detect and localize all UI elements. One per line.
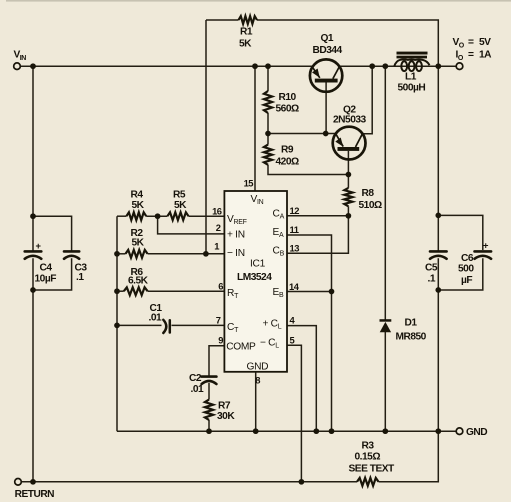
wire C5 bottom to ground bus [437, 258, 439, 431]
junction output ground node [435, 428, 441, 434]
resistor R5 body [167, 212, 188, 220]
wire C3 branch top [33, 216, 72, 251]
svg-text:C6: C6 [461, 253, 474, 264]
junction R8 CA CB node [346, 213, 352, 219]
junction C6 top node [435, 213, 441, 219]
svg-text:VO=5V: VO=5V [453, 37, 492, 49]
capacitor C6 500uF [475, 251, 492, 258]
inductor L1 core [397, 52, 428, 55]
inductor L1 500uH coil [394, 59, 429, 71]
svg-text:IC1: IC1 [250, 259, 266, 270]
wire D1 cathode from switch node [384, 66, 386, 319]
junction Q1 base Q2 emitter node [323, 131, 329, 137]
svg-text:R3: R3 [362, 441, 375, 452]
junction R10 top tap [265, 63, 271, 69]
svg-text:L1: L1 [405, 72, 417, 83]
resistor R9 body [264, 145, 272, 165]
svg-text:2: 2 [216, 222, 221, 233]
wire R3 to ground node [379, 431, 439, 482]
svg-text:R10: R10 [279, 92, 297, 103]
junction +CL ground [313, 428, 319, 434]
svg-text:RETURN: RETURN [15, 489, 55, 500]
wire pin 7 CT left of C1 [117, 324, 162, 326]
transistor Q1 BD344 [310, 59, 342, 91]
svg-text:5K: 5K [174, 200, 187, 211]
svg-text:6.5K: 6.5K [128, 276, 149, 287]
wire pin 2 +IN [158, 216, 225, 234]
svg-text:420Ω: 420Ω [276, 156, 299, 167]
svg-text:GND: GND [247, 361, 269, 372]
wire left ground vertical [116, 216, 118, 431]
capacitor C2 .01 [202, 377, 217, 384]
svg-text:.1: .1 [76, 272, 84, 283]
junction -CL return node [299, 479, 305, 485]
svg-text:6: 6 [218, 280, 223, 291]
svg-text:5K: 5K [132, 237, 145, 248]
terminal VO [456, 63, 463, 70]
wire C6 branch bottom [438, 258, 483, 290]
svg-text:14: 14 [289, 281, 300, 292]
junction output node [435, 63, 441, 69]
junction pin8 ground [253, 428, 259, 434]
wire C3 branch bottom [33, 258, 72, 290]
svg-text:2N5033: 2N5033 [333, 115, 367, 126]
wire pin 1 -IN [148, 253, 225, 255]
junction pin15 tap [252, 63, 258, 69]
wire top feedback right segment [257, 20, 438, 66]
wire pin 5 -CL to return bus [287, 345, 301, 482]
svg-text:C4: C4 [40, 263, 53, 274]
wire ground bus [117, 430, 456, 432]
IC IC1 LM3524 box [224, 191, 287, 372]
wire R2 left [117, 253, 126, 255]
wire R10 top [267, 66, 269, 91]
svg-text:SEE TEXT: SEE TEXT [349, 464, 396, 475]
resistor R6 body [124, 287, 148, 295]
svg-text:COMP: COMP [226, 341, 256, 352]
junction R2 ground side [114, 251, 120, 257]
wire pin 14 EB [287, 291, 332, 293]
wire VIN bus right / switch node to L1 [339, 65, 456, 67]
transistor Q2 2N5033 [333, 127, 366, 160]
svg-text:500µH: 500µH [398, 83, 426, 94]
wire output vertical to C5 [437, 66, 439, 251]
junction D1 tap [382, 63, 388, 69]
svg-text:.01: .01 [191, 384, 204, 395]
resistor R4 body [126, 212, 146, 220]
svg-text:C2: C2 [189, 373, 202, 384]
wire R6 left [117, 290, 124, 292]
wire VIN bus left [20, 65, 313, 67]
junction feedback -IN node [203, 251, 209, 257]
svg-text:13: 13 [290, 242, 300, 253]
wire left vertical C4 to RETURN [32, 258, 34, 482]
svg-text:12: 12 [290, 205, 300, 216]
wire R9 bottom to Q2 base node [268, 165, 348, 175]
svg-text:C5: C5 [425, 263, 438, 274]
wire R8 bottom [347, 206, 349, 216]
svg-text:1: 1 [214, 241, 219, 252]
wire pin 8 GND [255, 372, 257, 431]
svg-text:0.15Ω: 0.15Ω [355, 452, 381, 463]
resistor R10 body [264, 91, 272, 113]
junction VIN terminal node [30, 63, 36, 69]
svg-text:GND: GND [466, 427, 487, 438]
svg-text:+ IN: + IN [227, 230, 245, 241]
wire pin 9 COMP to C2 [209, 346, 224, 376]
wire C6 branch top [438, 215, 483, 250]
svg-text:500: 500 [458, 264, 474, 275]
resistor R8 body [344, 188, 352, 206]
capacitor C4 10uF [25, 251, 42, 258]
junction EB to EA node [329, 289, 335, 295]
wire left vertical VIN to C4 [32, 66, 34, 251]
svg-text:R7: R7 [218, 400, 231, 411]
junction R4-R5 node [155, 213, 161, 219]
junction C3 branch bottom [30, 287, 36, 293]
svg-text:BD344: BD344 [313, 45, 343, 56]
wire pin 12 CA [287, 215, 348, 217]
junction R6 ground side [114, 288, 120, 294]
wire pin 7 CT right of C1 [172, 324, 225, 326]
capacitor C5 .1 [430, 251, 447, 258]
wire pin 6 RT [148, 290, 225, 292]
svg-text:R1: R1 [240, 27, 253, 38]
wire pin 16 VREF [189, 215, 225, 217]
svg-text:16: 16 [212, 205, 222, 216]
svg-text:30K: 30K [217, 411, 235, 422]
wire R4 left [117, 215, 126, 217]
resistor R2 body [126, 250, 148, 258]
svg-text:.1: .1 [428, 274, 436, 285]
svg-text:R8: R8 [362, 188, 375, 199]
capacitor C3 .1 [64, 251, 79, 258]
svg-text:LM3524: LM3524 [237, 272, 272, 283]
terminal RETURN [15, 479, 22, 486]
resistor R7 body [205, 400, 213, 420]
junction C1 ground side [114, 323, 120, 329]
wire R4-R5 link [146, 215, 167, 217]
svg-text:Q1: Q1 [321, 33, 334, 44]
junction Q2 base R8 node [346, 172, 352, 178]
resistor R3 body [357, 478, 379, 486]
svg-text:µF: µF [461, 275, 472, 286]
diode D1 MR850 [380, 319, 392, 332]
svg-text:510Ω: 510Ω [359, 200, 382, 211]
wire D1 anode to ground bus [384, 332, 386, 431]
wire pin 4 +CL to ground bus [287, 326, 316, 432]
junction C3 branch top [30, 213, 36, 219]
resistor R1 body [239, 16, 258, 24]
svg-text:5K: 5K [132, 200, 145, 211]
svg-text:11: 11 [290, 224, 299, 235]
terminal VIN [14, 63, 21, 70]
capacitor C1 .01 [163, 320, 170, 333]
svg-text:D1: D1 [405, 318, 418, 329]
svg-text:5: 5 [290, 334, 295, 345]
wire pin 13 CB [287, 216, 348, 253]
svg-text:R9: R9 [281, 145, 294, 156]
wire pin 15 VIN to IC [254, 66, 256, 191]
svg-text:10µF: 10µF [35, 274, 57, 285]
junction R7 ground [206, 428, 212, 434]
wire top feedback left segment [206, 19, 239, 21]
junction C6 bottom node [435, 287, 441, 293]
junction Q2 collector tap [369, 63, 375, 69]
svg-text:5K: 5K [239, 39, 252, 50]
wire C2 to R7 [208, 383, 210, 400]
wire pin 11 EA to ground bus [287, 235, 332, 431]
svg-text:560Ω: 560Ω [276, 104, 299, 115]
terminal GND [456, 428, 463, 435]
svg-text:15: 15 [244, 178, 254, 189]
wire Q2 base lead to R8 [347, 151, 349, 188]
junction R10-R9 node [265, 131, 271, 137]
wire return bus left of R3 [21, 481, 357, 483]
wire R10-R9 link [267, 113, 269, 145]
wire R7 bottom [208, 420, 210, 431]
wire Q1 base lead [325, 83, 327, 134]
junction return node left [30, 479, 36, 485]
svg-text:9: 9 [218, 335, 223, 346]
junction EA EB ground [329, 428, 335, 434]
svg-text:.01: .01 [149, 313, 162, 324]
svg-text:7: 7 [216, 315, 221, 326]
wire Q2 collector to switch node [362, 66, 372, 134]
wire feedback vertical to -IN [205, 20, 207, 254]
svg-text:− IN: − IN [227, 248, 245, 259]
svg-text:8: 8 [255, 374, 260, 385]
svg-text:MR850: MR850 [396, 332, 427, 343]
junction D1 ground [382, 428, 388, 434]
wire Q1 base / Q2 emitter link [268, 133, 336, 135]
